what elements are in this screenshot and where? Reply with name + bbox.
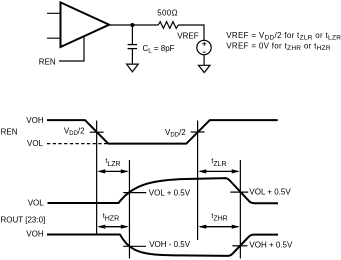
svg-text:REN: REN <box>1 128 18 137</box>
svg-text:VOH: VOH <box>26 229 44 238</box>
svg-text:VOH - 0.5V: VOH - 0.5V <box>149 240 191 249</box>
svg-text:VOH: VOH <box>26 116 44 125</box>
svg-text:VOL + 0.5V: VOL + 0.5V <box>149 188 191 197</box>
svg-text:500Ω: 500Ω <box>157 9 178 18</box>
svg-text:VOL: VOL <box>28 199 45 208</box>
svg-text:VOH + 0.5V: VOH + 0.5V <box>249 241 293 250</box>
svg-text:VREF: VREF <box>177 32 198 41</box>
svg-text:REN: REN <box>39 58 56 67</box>
svg-text:VOL + 0.5V: VOL + 0.5V <box>249 188 291 197</box>
svg-text:ROUT [23:0]: ROUT [23:0] <box>1 216 46 225</box>
svg-text:CL = 8pF: CL = 8pF <box>143 44 175 55</box>
svg-text:VOL: VOL <box>27 139 44 148</box>
